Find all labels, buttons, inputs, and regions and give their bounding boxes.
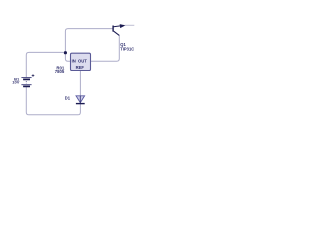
svg-text:REF: REF [76,65,85,70]
wire Q1 emitter stub [125,24,134,26]
wire junction down to IN pin [65,53,70,62]
battery B1 [21,74,34,86]
regulator RG1 box [71,53,91,70]
svg-text:IN: IN [72,58,76,63]
wire OUT pin right and up to Q1 collector [91,35,120,61]
wire battery- down, bottom rail, up through D1 to REF pin [26,71,80,115]
wire junction up and over to Q1 base [65,29,112,52]
transistor Q1 [113,24,125,35]
wire battery+ up to junction row [26,52,63,77]
svg-text:10V: 10V [12,80,19,85]
node junction dot [64,51,67,54]
svg-text:TIP31C: TIP31C [120,46,134,51]
svg-text:D1: D1 [65,96,71,101]
diode D1 [76,96,85,104]
svg-text:OUT: OUT [78,58,87,63]
svg-text:7805: 7805 [55,69,65,74]
